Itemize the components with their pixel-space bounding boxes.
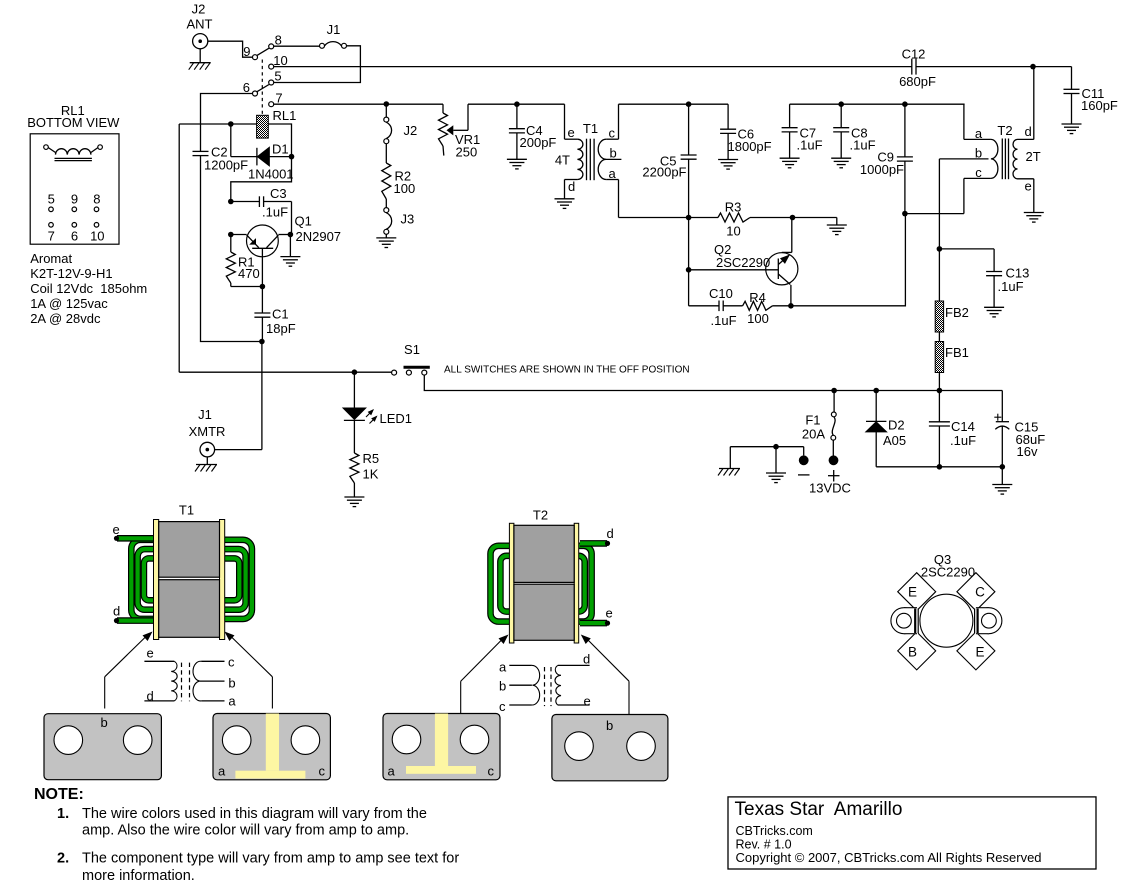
svg-text:b: b	[228, 675, 235, 690]
svg-text:B: B	[908, 645, 917, 660]
T2 pictorial lead e	[580, 606, 613, 626]
svg-text:200pF: 200pF	[520, 135, 557, 150]
junction C3 left	[228, 199, 234, 205]
T1 pictorial label	[179, 503, 194, 518]
T2 pictorial bobbin and core	[507, 523, 580, 643]
svg-text:1000pF: 1000pF	[860, 162, 904, 177]
relay RL1 contact 10	[269, 53, 288, 69]
svg-text:J2: J2	[192, 2, 206, 17]
jumper J1	[320, 22, 347, 48]
svg-text:LED1: LED1	[380, 411, 413, 426]
svg-text:.1uF: .1uF	[797, 138, 823, 153]
terminal 13VDC plus	[809, 455, 851, 495]
ferrite bead FB1	[935, 342, 969, 373]
wire contact 7 to VR1	[274, 103, 443, 105]
svg-text:b: b	[101, 715, 108, 730]
junction D2 top	[873, 388, 879, 394]
svg-text:.1uF: .1uF	[262, 205, 288, 220]
svg-text:The wire colors used in this d: The wire colors used in this diagram wil…	[82, 806, 427, 822]
svg-text:100: 100	[747, 311, 769, 326]
capacitor C2	[193, 145, 249, 173]
wire D1 loop to C3	[231, 157, 292, 202]
note ALL SWITCHES	[444, 364, 690, 375]
svg-text:d: d	[607, 526, 614, 541]
wire C7-C8 rail	[790, 103, 965, 105]
svg-text:2.: 2.	[57, 851, 69, 867]
wire D1 left	[231, 124, 257, 157]
resistor R3	[689, 200, 793, 239]
transistor Q3 package	[891, 552, 1002, 670]
svg-text:ALL SWITCHES ARE SHOWN IN THE: ALL SWITCHES ARE SHOWN IN THE OFF POSITI…	[444, 364, 690, 375]
capacitor C4	[509, 104, 557, 159]
svg-text:e: e	[606, 606, 613, 621]
relay RL1 contact 9	[243, 44, 269, 60]
svg-text:S1: S1	[404, 342, 420, 357]
svg-text:R4: R4	[749, 290, 766, 305]
wire T1-a to R3	[619, 217, 689, 219]
svg-text:E: E	[975, 645, 984, 660]
svg-text:1.: 1.	[57, 806, 69, 822]
svg-text:D2: D2	[888, 418, 905, 433]
junction C13	[937, 246, 943, 252]
resistor R4	[743, 290, 791, 326]
junction C12/T2-d	[1030, 64, 1036, 70]
T1 arrow left	[105, 629, 155, 709]
svg-text:d: d	[1025, 124, 1032, 139]
svg-text:c: c	[499, 699, 506, 714]
junction D1 cathode	[289, 154, 295, 160]
relay coil RL1	[257, 108, 297, 138]
svg-text:C12: C12	[902, 47, 926, 62]
wire C9 bottom to T2-c	[905, 213, 964, 215]
ground at Q1	[280, 257, 300, 267]
svg-text:10: 10	[726, 224, 740, 239]
svg-text:C10: C10	[709, 286, 733, 301]
svg-text:e: e	[1025, 179, 1032, 194]
svg-text:6: 6	[71, 229, 78, 244]
junction C9 top	[902, 101, 908, 107]
svg-text:2T: 2T	[1026, 149, 1041, 164]
svg-text:1800pF: 1800pF	[728, 139, 772, 154]
T1 pictorial lead d	[113, 604, 160, 624]
junction minus ground	[773, 444, 779, 450]
svg-text:T2: T2	[997, 123, 1012, 138]
chassis ground at XMTR	[195, 465, 217, 472]
junction Q1 base-left	[228, 232, 234, 238]
svg-text:1200pF: 1200pF	[204, 158, 248, 173]
junction Q2 base	[686, 267, 692, 273]
svg-text:7: 7	[275, 91, 282, 106]
svg-text:e: e	[147, 646, 154, 661]
svg-text:C14: C14	[951, 419, 975, 434]
wire RL1 coil top	[179, 123, 256, 125]
ferrite bead FB2	[935, 301, 969, 332]
svg-text:5: 5	[274, 69, 281, 84]
T1 pictorial bobbin and core	[152, 520, 226, 640]
junction F1	[831, 388, 837, 394]
svg-text:CBTricks.com: CBTricks.com	[736, 824, 813, 838]
svg-text:160pF: 160pF	[1081, 98, 1118, 113]
svg-text:1A @ 125vac: 1A @ 125vac	[30, 296, 108, 311]
svg-text:b: b	[499, 679, 506, 694]
T2 pictorial windings	[491, 546, 592, 622]
svg-text:J3: J3	[401, 212, 415, 227]
wire VR1 to C4 to T1-e	[468, 103, 565, 105]
junction C5 top	[686, 101, 692, 107]
wire contact 10 to C12	[274, 66, 912, 68]
T1 pad left (b)	[44, 714, 161, 780]
svg-text:J2: J2	[404, 123, 418, 138]
svg-text:18pF: 18pF	[266, 321, 296, 336]
svg-text:R3: R3	[725, 200, 742, 215]
capacitor C8	[833, 104, 875, 158]
junction Q1 collector	[288, 232, 294, 238]
svg-text:9: 9	[71, 192, 78, 207]
svg-text:RL1: RL1	[273, 108, 297, 123]
svg-text:4T: 4T	[555, 153, 570, 168]
diode D2	[866, 391, 906, 467]
svg-text:ANT: ANT	[187, 17, 213, 32]
resistor R2	[382, 163, 415, 208]
svg-text:J1: J1	[198, 407, 212, 422]
wire T1-c rail	[619, 103, 729, 105]
connector J1 XMTR	[189, 407, 262, 465]
svg-text:b: b	[606, 718, 613, 733]
ground at T2-e	[1024, 213, 1044, 223]
svg-text:d: d	[568, 179, 575, 194]
junction R3 left	[686, 215, 692, 221]
relay RL1 contact 5	[269, 69, 282, 86]
wire FB2 to FB1	[938, 332, 940, 342]
svg-text:FB2: FB2	[945, 305, 969, 320]
relay RL1 contact 6	[243, 80, 269, 96]
junction Q1 base bottom	[260, 284, 266, 290]
ground at C4	[507, 159, 527, 169]
jumper J2 bias	[384, 104, 417, 163]
RL1 bottom view pins	[48, 192, 105, 244]
svg-text:a: a	[228, 694, 236, 709]
RL1 bottom view coil	[44, 145, 103, 161]
T1 pad right (a-c)	[213, 714, 330, 780]
junction C1 bottom	[259, 339, 265, 345]
svg-text:more information.: more information.	[82, 868, 195, 884]
svg-text:d: d	[583, 652, 590, 667]
junction C9 bottom	[902, 211, 908, 217]
T1 pictorial windings	[131, 540, 252, 619]
wire J1 to contact 5	[274, 46, 361, 83]
capacitor C15	[994, 391, 1045, 467]
T2 pad right (b)	[552, 715, 668, 781]
svg-text:2N2907: 2N2907	[296, 229, 342, 244]
svg-text:9: 9	[243, 44, 250, 59]
svg-text:C: C	[975, 585, 985, 600]
svg-text:20A: 20A	[802, 427, 825, 442]
wire RL1 coil right	[268, 124, 291, 157]
svg-text:J1: J1	[327, 22, 341, 37]
ground at R5	[344, 497, 364, 507]
wire FB1 to rail	[938, 373, 940, 391]
svg-text:T1: T1	[179, 503, 194, 518]
svg-text:a: a	[499, 660, 507, 675]
capacitor C9	[860, 104, 913, 213]
wire 13V rail right	[834, 390, 1002, 392]
ground at T1-d	[555, 199, 575, 209]
svg-text:c: c	[319, 764, 326, 779]
svg-text:A05: A05	[883, 433, 906, 448]
svg-text:Aromat: Aromat	[30, 251, 72, 266]
wire T2-b down	[938, 159, 940, 301]
svg-text:F1: F1	[805, 413, 820, 428]
wire J2 to relay contact 9	[208, 41, 253, 57]
svg-text:.1uF: .1uF	[950, 433, 976, 448]
ground at J3	[376, 238, 396, 248]
capacitor C7	[782, 104, 823, 158]
svg-text:FB1: FB1	[945, 345, 969, 360]
svg-text:c: c	[488, 764, 495, 779]
svg-text:T2: T2	[533, 508, 548, 523]
capacitor C11	[1064, 86, 1118, 124]
fuse F1	[802, 391, 836, 456]
wire R3 to ground stub	[793, 218, 837, 226]
jumper J3	[384, 208, 414, 238]
wire to Q1 emitter	[231, 234, 247, 236]
dashed linkage to RL1 coil	[261, 60, 263, 115]
capacitor C5	[642, 104, 696, 217]
T1 arrow right	[222, 629, 272, 709]
svg-text:10: 10	[90, 229, 104, 244]
svg-text:Copyright © 2007, CBTricks.com: Copyright © 2007, CBTricks.com All Right…	[736, 850, 1042, 865]
svg-text:b: b	[975, 145, 982, 160]
T1 pictorial lead e	[113, 522, 161, 541]
svg-text:d: d	[113, 604, 120, 619]
svg-text:10: 10	[273, 53, 287, 68]
svg-text:XMTR: XMTR	[189, 424, 226, 439]
svg-text:NOTE:: NOTE:	[34, 786, 84, 803]
svg-text:The component type will vary f: The component type will vary from amp to…	[82, 851, 459, 867]
svg-text:a: a	[218, 764, 226, 779]
potentiometer VR1	[439, 104, 481, 159]
svg-text:.1uF: .1uF	[998, 279, 1024, 294]
note text	[34, 786, 459, 884]
svg-text:16v: 16v	[1017, 444, 1038, 459]
svg-text:a: a	[609, 166, 617, 181]
wire RL1 top rail to S1	[179, 124, 391, 372]
junction LED branch	[352, 369, 358, 375]
ground at R3	[827, 225, 847, 235]
svg-text:Coil 12Vdc 185ohm: Coil 12Vdc 185ohm	[30, 281, 147, 296]
svg-text:470: 470	[238, 266, 260, 281]
transistor Q1	[247, 214, 342, 287]
svg-text:Q1: Q1	[295, 214, 312, 229]
ground at C13	[984, 307, 1004, 317]
svg-text:K2T-12V-9-H1: K2T-12V-9-H1	[30, 266, 112, 281]
svg-text:2A @ 28vdc: 2A @ 28vdc	[30, 311, 101, 326]
svg-text:e: e	[113, 522, 120, 537]
transformer T2 symbol	[939, 67, 1040, 214]
svg-text:.1uF: .1uF	[711, 313, 737, 328]
transformer T1 symbol	[555, 104, 622, 217]
svg-text:5: 5	[48, 192, 55, 207]
svg-text:a: a	[388, 764, 396, 779]
capacitor C10	[689, 286, 743, 328]
resistor R1	[226, 235, 262, 287]
svg-text:c: c	[228, 655, 235, 670]
svg-text:T1: T1	[583, 121, 598, 136]
svg-text:1N4001: 1N4001	[248, 167, 294, 182]
ground at C8	[831, 158, 851, 168]
wire contact 8 to J1	[274, 45, 320, 47]
junction C8	[838, 101, 844, 107]
ground at C15	[992, 467, 1012, 494]
wire C3 right to Q1	[291, 202, 293, 235]
junction at RL1 top	[228, 121, 234, 127]
T2 arrow left	[461, 632, 511, 714]
capacitor C13	[939, 249, 1029, 307]
capacitor C1	[254, 287, 295, 342]
wire C12 to C11 and T2-d	[916, 67, 1072, 90]
junction Q2 emitter	[788, 303, 794, 309]
svg-text:C3: C3	[270, 186, 287, 201]
junction bias column	[384, 101, 390, 107]
junction R3 right	[790, 215, 796, 221]
relay RL1 contact 7	[269, 91, 283, 107]
ground at minus	[766, 447, 786, 483]
transistor Q2	[689, 218, 798, 306]
svg-text:amp. Also the wire color will: amp. Also the wire color will vary from …	[82, 823, 409, 839]
svg-text:R5: R5	[363, 451, 380, 466]
svg-text:C1: C1	[272, 307, 289, 322]
T1 winding diagram	[144, 646, 236, 709]
svg-text:7: 7	[48, 229, 55, 244]
svg-text:1K: 1K	[363, 467, 379, 482]
svg-text:2SC2290: 2SC2290	[921, 565, 975, 580]
svg-text:b: b	[610, 145, 617, 160]
junction C14 top	[937, 388, 943, 394]
wire Q1 collector to ground	[278, 235, 290, 257]
capacitor C12	[899, 47, 936, 90]
svg-text:D1: D1	[272, 142, 289, 157]
svg-text:E: E	[908, 585, 917, 600]
svg-text:13VDC: 13VDC	[809, 481, 851, 496]
capacitor C6	[720, 104, 772, 159]
svg-text:2SC2290: 2SC2290	[716, 255, 770, 270]
diode D1	[248, 142, 294, 182]
svg-text:8: 8	[275, 33, 282, 48]
wire S1 to 13V rail	[424, 375, 834, 390]
svg-text:8: 8	[93, 192, 100, 207]
svg-text:e: e	[584, 694, 591, 709]
svg-text:e: e	[568, 125, 575, 140]
wire contact 6 to C2	[201, 94, 253, 152]
ground at C7	[780, 158, 800, 168]
svg-text:680pF: 680pF	[899, 74, 936, 89]
ground at C11	[1062, 124, 1082, 134]
capacitor C3	[231, 186, 292, 220]
svg-text:c: c	[609, 125, 616, 140]
relay RL1 contact 8	[269, 33, 282, 49]
wire C2 to XMTR node	[201, 156, 262, 342]
title block	[728, 797, 1096, 869]
resistor R5	[350, 451, 379, 497]
connector J2 ANT	[187, 2, 213, 63]
svg-text:c: c	[975, 165, 982, 180]
svg-text:250: 250	[456, 144, 478, 159]
wire C5 to Q2 base	[688, 218, 690, 306]
chassis ground at minus	[718, 447, 740, 476]
T2 pictorial label	[533, 508, 548, 523]
T2 pictorial lead d	[580, 526, 614, 546]
relay spec text	[30, 251, 147, 326]
svg-text:BOTTOM VIEW: BOTTOM VIEW	[27, 115, 120, 130]
T2 pad left (a-c)	[383, 714, 500, 780]
junction C14 bottom	[937, 464, 943, 470]
wire D2/C14/C15 bottom	[876, 466, 1002, 468]
terminal 13VDC minus	[730, 447, 809, 475]
ground at C6	[718, 160, 738, 170]
svg-text:2200pF: 2200pF	[642, 165, 686, 180]
junction C4	[514, 101, 520, 107]
switch S1	[392, 342, 430, 375]
chassis ground at J2	[189, 63, 211, 70]
RL1 bottom view label	[27, 103, 120, 130]
RL1 bottom view box	[30, 134, 119, 244]
svg-text:.1uF: .1uF	[850, 138, 876, 153]
capacitor C14	[929, 391, 976, 467]
svg-text:100: 100	[394, 181, 416, 196]
wire C1 to XMTR	[261, 342, 263, 450]
T2 winding diagram	[499, 652, 591, 715]
LED LED1	[343, 372, 412, 453]
svg-text:Texas Star Amarillo: Texas Star Amarillo	[735, 799, 903, 820]
svg-text:6: 6	[243, 80, 250, 95]
T2 arrow right	[578, 632, 629, 715]
svg-text:a: a	[975, 126, 983, 141]
wire Q2 emitter to C9 bottom	[791, 214, 906, 306]
junction C15 bottom	[1000, 464, 1006, 470]
